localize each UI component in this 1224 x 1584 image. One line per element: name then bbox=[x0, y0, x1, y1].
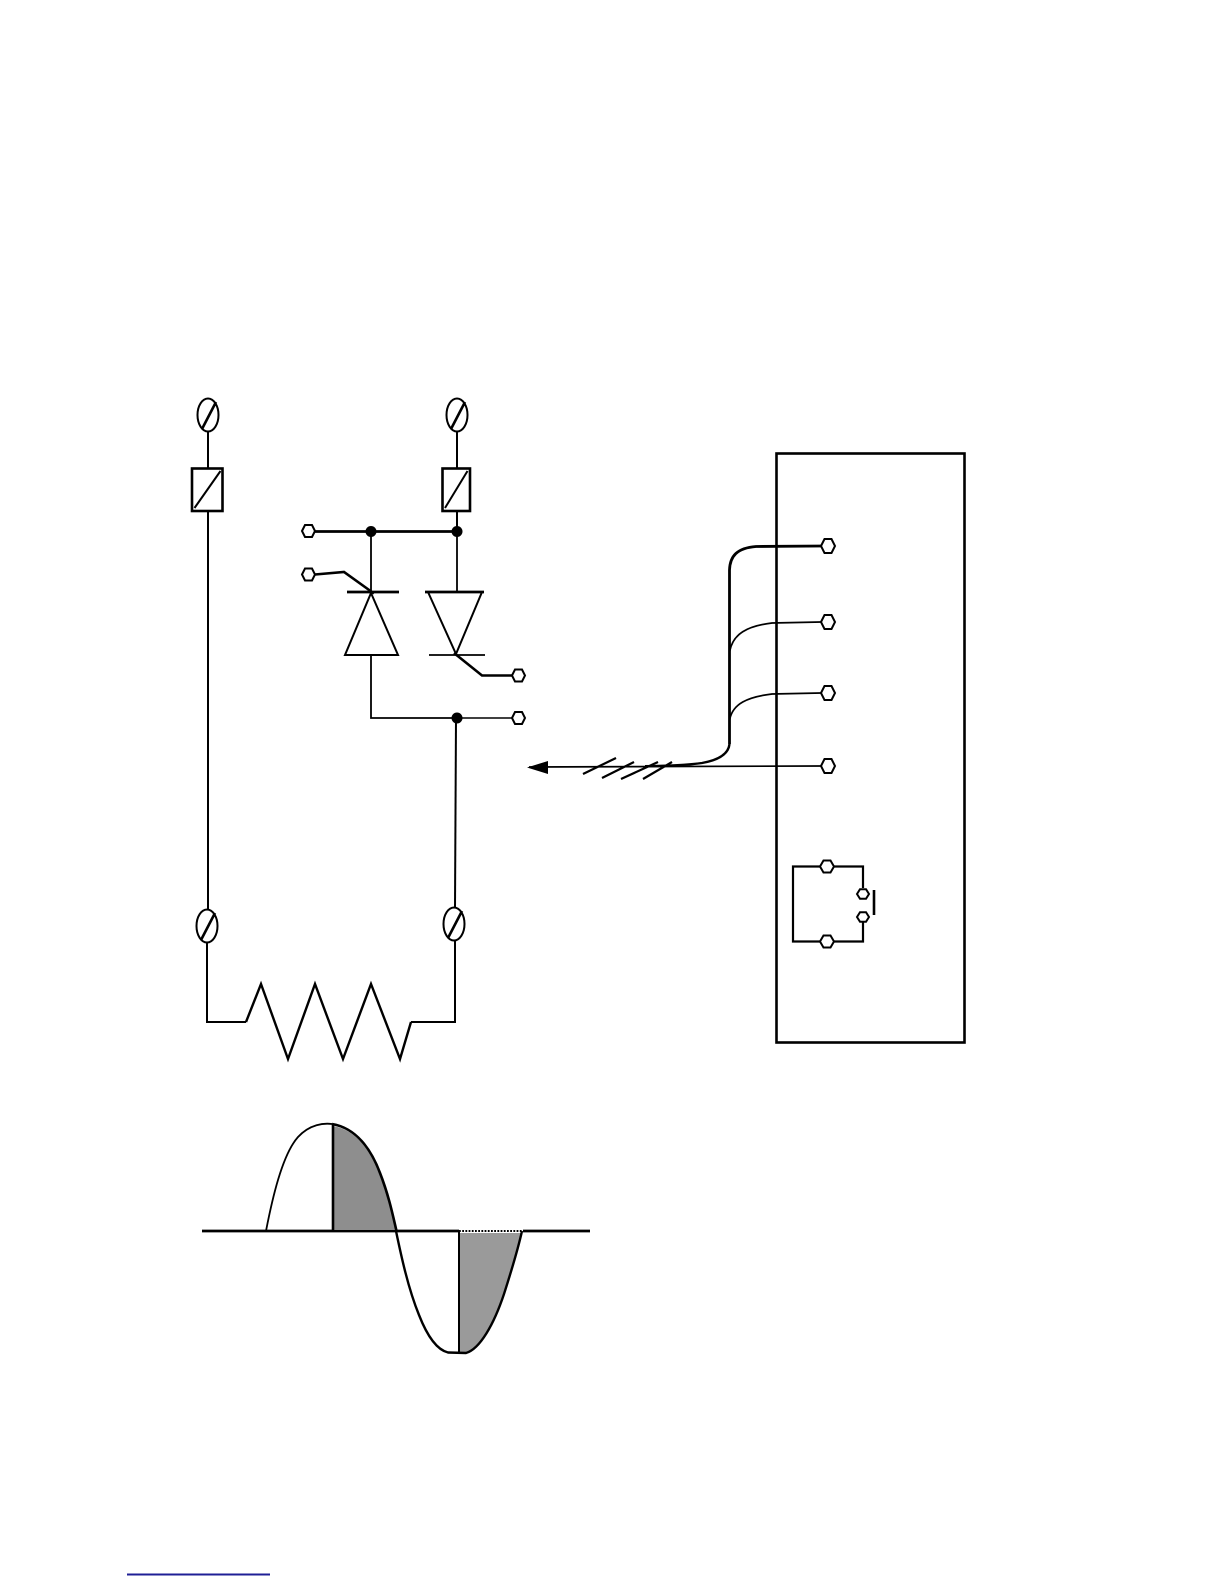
bundle hash marks bbox=[583, 758, 672, 779]
arrowhead bbox=[527, 761, 548, 774]
gate lead Q1 bbox=[315, 572, 374, 594]
wire control line with arrow bbox=[529, 766, 821, 767]
controller box bbox=[777, 454, 965, 1043]
wire center vertical (node to terminal) bbox=[455, 718, 456, 907]
node junction A (dot) bbox=[452, 526, 463, 537]
terminal L1 top (circle with slash) bbox=[198, 399, 219, 432]
terminal hex Q2 gate bbox=[512, 670, 525, 682]
terminal hex S1 bottom bbox=[820, 936, 834, 948]
fuse F2 bbox=[443, 469, 471, 512]
firing line negative bbox=[458, 1231, 460, 1352]
terminal hex S1 top bbox=[820, 861, 834, 873]
footnote rule (blue) bbox=[127, 1574, 270, 1576]
terminal hex top bus bbox=[302, 525, 315, 537]
terminal hex CT4 bbox=[821, 759, 835, 773]
terminal hex CT2 bbox=[821, 615, 835, 629]
terminal L2 top (circle with slash) bbox=[447, 399, 468, 432]
waveform axis dashed segment bbox=[459, 1230, 524, 1232]
terminal hex Q1 gate bbox=[302, 569, 315, 581]
wire harness lead 3 bbox=[730, 693, 821, 719]
wire L1 to fuse F1 bbox=[207, 431, 209, 469]
resistor R load (zigzag) bbox=[246, 984, 411, 1059]
waveform axis solid right bbox=[523, 1230, 590, 1233]
wire node B to thyristor Q1 bbox=[370, 531, 372, 592]
wire L2 to fuse F2 bbox=[456, 431, 458, 469]
wire fuse F2 to node A bbox=[456, 511, 458, 532]
wire node A to thyristor Q2 bbox=[456, 532, 458, 592]
pushbutton actuator bar bbox=[873, 890, 876, 915]
wire node C to terminal hex bbox=[461, 717, 512, 719]
thyristor Q1 (cathode up) bbox=[345, 592, 399, 655]
terminal L2 bottom (circle with slash) bbox=[444, 908, 465, 941]
fuse F1 bbox=[192, 469, 223, 512]
wire Q1 cathode to node C bbox=[371, 655, 452, 718]
terminal L1 bottom (circle with slash) bbox=[197, 910, 218, 943]
node junction B (dot) bbox=[366, 526, 377, 537]
terminal hex cathode bus bbox=[512, 712, 525, 724]
sine negative half outline bbox=[396, 1231, 522, 1353]
gate lead Q2 bbox=[454, 653, 512, 676]
pushbutton S1 loop bbox=[793, 867, 820, 942]
wire to resistor left bbox=[207, 943, 246, 1022]
terminal hex CT3 bbox=[821, 686, 835, 700]
firing line positive bbox=[332, 1124, 335, 1231]
terminal hex CT1 bbox=[821, 539, 835, 553]
contact hex S1 upper bbox=[857, 889, 869, 899]
wire harness lead 1 (thick) bbox=[730, 546, 823, 744]
wire harness lead 2 bbox=[730, 622, 821, 651]
sine positive half left outline bbox=[266, 1124, 332, 1231]
contact hex S1 lower bbox=[857, 912, 869, 922]
waveform axis solid left bbox=[202, 1230, 459, 1233]
wire left vertical bbox=[207, 511, 209, 910]
shaded conduction positive bbox=[333, 1126, 396, 1230]
wire top bus (thick horizontal) bbox=[314, 530, 457, 533]
wire resistor to right branch bbox=[411, 941, 455, 1022]
thyristor Q2 (cathode down) bbox=[425, 592, 485, 655]
sine positive half right outline bbox=[332, 1124, 397, 1231]
node junction C (dot) bbox=[452, 713, 463, 724]
shaded conduction negative bbox=[459, 1233, 521, 1353]
wire harness bundle bottom curve bbox=[645, 744, 730, 766]
